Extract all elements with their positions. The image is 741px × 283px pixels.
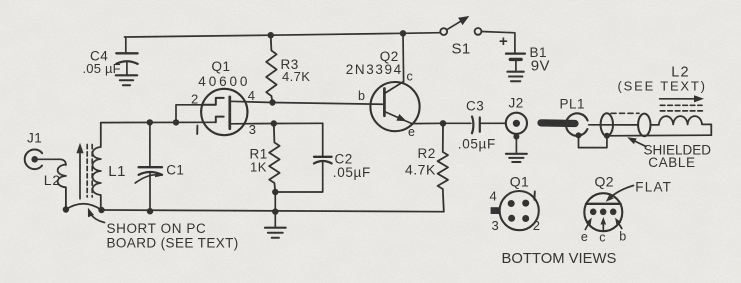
- tuning-slug arrow between L2 and L1: [76, 143, 83, 199]
- Q1 channel bar: [228, 97, 231, 129]
- cable end ellipse right: [638, 114, 650, 137]
- node: C1 top junction: [147, 119, 153, 125]
- capacitor C1 variable tuning: [135, 123, 184, 211]
- dashed rows under arrow: [660, 105, 703, 111]
- svg-text:4: 4: [490, 189, 498, 204]
- svg-text:L1: L1: [108, 163, 126, 180]
- wire Q1 gate rail (L1 top / C1 / gates): [101, 121, 216, 123]
- svg-text:1K: 1K: [250, 160, 267, 175]
- plug PL1 phono: [541, 97, 588, 139]
- node: R3 top junction: [268, 32, 274, 38]
- svg-text:PL1: PL1: [560, 97, 586, 112]
- jack J1 antenna input: [25, 131, 43, 170]
- coil L2 output link (see text): [618, 65, 712, 136]
- Q1 view pin 1: [533, 192, 535, 200]
- switch S1 SPST: [440, 16, 481, 58]
- Q2 view pin e: [581, 218, 592, 244]
- resistor R2 4.7K: [405, 123, 448, 211]
- Q1 bottom view (pin diagram): [490, 173, 541, 233]
- ground below B1: [508, 72, 524, 82]
- svg-text:BOTTOM VIEWS: BOTTOM VIEWS: [502, 251, 617, 267]
- wire bottom ground rail: [102, 210, 444, 212]
- ground main rail: [265, 212, 286, 238]
- svg-text:b: b: [619, 230, 626, 244]
- svg-text:+: +: [499, 33, 508, 50]
- wire top supply rail from C4 to S1: [125, 33, 441, 37]
- shielded cable center conductor: [589, 124, 639, 126]
- node: R1 bottom / C2 bottom junction: [272, 189, 278, 195]
- capacitor C3 .05uF output coupling: [458, 99, 506, 152]
- wire PL1 sleeve to cable shield: [579, 135, 607, 147]
- wire J1 to L2: [38, 159, 66, 165]
- svg-text:C3: C3: [466, 99, 484, 114]
- wire R1 bottom to rail: [274, 192, 276, 212]
- battery B1 9V: [499, 33, 550, 75]
- ground below J2: [506, 137, 527, 162]
- svg-text:.05µF: .05µF: [333, 165, 371, 180]
- Q2 collector stroke: [384, 82, 403, 94]
- svg-text:c: c: [599, 231, 606, 245]
- Q2 bottom view (pin diagram): [584, 174, 622, 232]
- svg-text:4.7K: 4.7K: [405, 162, 436, 178]
- wire: short-on-PC-board arc: [66, 204, 102, 210]
- Q2 base bar: [383, 89, 386, 116]
- svg-text:(SEE TEXT): (SEE TEXT): [618, 79, 707, 94]
- svg-text:9V: 9V: [531, 58, 550, 75]
- svg-text:J2: J2: [509, 96, 524, 111]
- jack J2 output: [506, 96, 527, 140]
- node: ground rail center junction: [272, 208, 278, 214]
- coil L1 tuned winding: [93, 123, 126, 210]
- cable shield dashed top: [611, 112, 639, 114]
- BOTTOM VIEWS caption: [502, 251, 617, 267]
- capacitor C4 .05uF bypass: [83, 37, 138, 76]
- callout SHORT ON PC BOARD: [88, 208, 239, 251]
- svg-text:SHORT ON PC: SHORT ON PC: [107, 221, 207, 236]
- resistor R3 4.7K: [266, 35, 310, 102]
- Q2 emitter stroke with arrow: [384, 112, 411, 124]
- svg-text:2: 2: [533, 218, 541, 233]
- svg-text:b: b: [358, 89, 365, 103]
- svg-text:S1: S1: [452, 41, 471, 58]
- svg-text:.05µF: .05µF: [458, 136, 496, 151]
- wire Q2 collector to rail: [402, 33, 405, 81]
- node: gate-2 riser junction: [173, 119, 179, 125]
- svg-text:Q2: Q2: [595, 174, 614, 190]
- svg-text:2N3394: 2N3394: [346, 62, 403, 77]
- callout SHIELDED CABLE: [627, 137, 711, 170]
- node: L2 bottom: [63, 206, 69, 212]
- node: C1 bottom: [147, 208, 153, 214]
- scan noise overlay (decorative): [0, 0, 1, 1]
- transistor Q2 2N3394: [346, 49, 420, 139]
- Q1 pin number 1: [196, 126, 198, 134]
- svg-text:Q1: Q1: [510, 173, 529, 189]
- winding-direction arrow over L2: [660, 95, 704, 102]
- svg-text:4.7K: 4.7K: [282, 69, 310, 84]
- capacitor C2 .05uF: [275, 123, 371, 192]
- svg-text:3: 3: [492, 218, 500, 233]
- wire S1 to B1: [481, 32, 515, 53]
- Q2 view pin c: [599, 217, 606, 245]
- Q1 gate-1 bar (pin 1): [216, 117, 224, 123]
- svg-text:CABLE: CABLE: [648, 155, 695, 170]
- Q2 view pin b: [615, 218, 627, 244]
- svg-text:e: e: [581, 230, 588, 244]
- resistor R1 1K: [250, 124, 280, 193]
- ground below C4: [116, 75, 137, 85]
- FLAT callout: [606, 180, 672, 202]
- node: Q1 source junction: [271, 120, 277, 126]
- svg-text:.05 µF: .05 µF: [83, 61, 121, 76]
- svg-text:J1: J1: [27, 131, 42, 146]
- wire Q2 emitter to C3: [412, 122, 471, 124]
- svg-text:4: 4: [248, 88, 256, 103]
- node: emitter / R2 junction: [440, 120, 446, 126]
- svg-text:40600: 40600: [198, 74, 250, 89]
- svg-text:FLAT: FLAT: [635, 180, 672, 195]
- cable end ellipse left: [601, 113, 613, 139]
- svg-text:c: c: [407, 70, 414, 84]
- dashed core lines: [87, 145, 92, 198]
- transistor Q1 40600 dual-gate MOSFET: [191, 59, 257, 137]
- node: L1 bottom: [98, 207, 104, 213]
- coil L2 antenna link winding: [44, 165, 66, 210]
- svg-text:C1: C1: [166, 163, 184, 178]
- node: collector top junction: [400, 30, 406, 36]
- Q1 gate-2 bar (pin 2): [202, 98, 224, 105]
- cable shield bottom line: [607, 134, 711, 137]
- node: R3 bottom / Q1 drain junction: [269, 99, 275, 105]
- wire gate-2 riser: [176, 105, 202, 123]
- svg-text:Q1: Q1: [212, 59, 231, 74]
- svg-text:BOARD (SEE TEXT): BOARD (SEE TEXT): [107, 236, 239, 251]
- wire Q1 drain (pin 4) to Q2 base: [230, 101, 384, 104]
- wire Q1 source (pin 3) to R1 and C2: [230, 122, 323, 125]
- svg-text:e: e: [408, 125, 415, 139]
- svg-text:R2: R2: [418, 146, 436, 161]
- svg-text:L2: L2: [44, 172, 61, 188]
